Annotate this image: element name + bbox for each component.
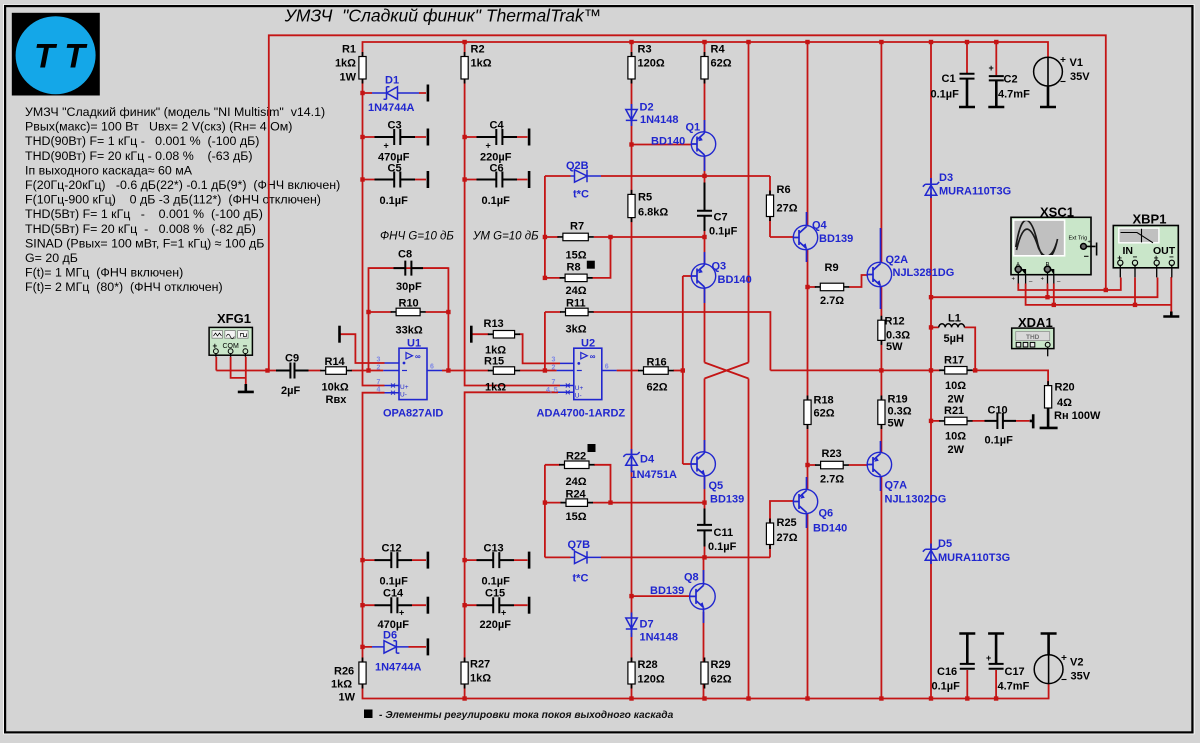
ground C2	[988, 81, 1004, 107]
ground D1 row	[427, 85, 430, 102]
svg-text:G= 20 дБ: G= 20 дБ	[25, 251, 78, 265]
diode D4 zener	[623, 452, 639, 465]
svg-text:F(t)= 2 МГц (80*) (ФНЧ отклю: F(t)= 2 МГц (80*) (ФНЧ отключен)	[25, 280, 223, 294]
capacitor C12	[375, 552, 413, 568]
wire D6 row stubs	[363, 646, 427, 648]
wire Q4 collector rail drop	[807, 42, 809, 227]
CAPACITORS	[276, 73, 1016, 669]
wire R13 to U2 pin3	[520, 334, 560, 363]
svg-text:1W: 1W	[339, 692, 356, 704]
OP-AMP U2	[546, 348, 617, 399]
wire scope line B from output column	[931, 278, 1158, 298]
svg-text:+: +	[384, 141, 389, 151]
svg-text:0.1µF: 0.1µF	[931, 89, 960, 101]
diode Q2B thermal	[571, 170, 602, 182]
svg-text:5µH: 5µH	[944, 333, 964, 345]
svg-text:XDA1: XDA1	[1018, 315, 1053, 330]
ground V2	[1041, 634, 1057, 655]
svg-text:0.1µF: 0.1µF	[709, 226, 738, 238]
wire C1 bottom	[966, 93, 968, 99]
svg-text:Q2A: Q2A	[886, 254, 909, 266]
svg-text:Iп выходного каскада≈ 60 мА: Iп выходного каскада≈ 60 мА	[25, 163, 193, 177]
wire R16 input from U2 out	[617, 370, 639, 372]
svg-text:D1: D1	[385, 75, 399, 87]
svg-text:R19: R19	[888, 394, 908, 406]
junctions x704 column Q1 C7 Q3 C11 Q8	[702, 174, 706, 178]
resistor R11	[566, 308, 589, 316]
svg-text:SINAD (Рвых= 100 мВт, F=1 кГц): SINAD (Рвых= 100 мВт, F=1 кГц) ≈ 100 дБ	[25, 236, 264, 250]
svg-text:24Ω: 24Ω	[566, 285, 587, 297]
svg-text:R8: R8	[567, 262, 581, 274]
svg-text:R11: R11	[566, 298, 586, 310]
svg-text:C3: C3	[388, 120, 402, 132]
svg-text:XSC1: XSC1	[1040, 205, 1074, 220]
svg-text:R22: R22	[566, 451, 586, 463]
svg-text:+: +	[399, 608, 404, 618]
resistor R26	[359, 662, 366, 684]
wire x631 column R3 D2 R5 D4 D7 R28	[631, 79, 633, 699]
diode D7 vertical	[626, 618, 637, 633]
svg-text:C16: C16	[937, 666, 957, 678]
svg-text:U2: U2	[581, 338, 595, 350]
junctions instrument wiring	[1104, 288, 1108, 292]
svg-text:R5: R5	[638, 192, 652, 204]
ground XFG1	[238, 384, 254, 392]
svg-text:0.1µF: 0.1µF	[380, 576, 409, 588]
svg-text:BD139: BD139	[650, 585, 684, 597]
wire scope line A input	[1018, 278, 1121, 291]
svg-text:+: +	[1012, 277, 1016, 283]
svg-text:D5: D5	[938, 538, 952, 550]
transistor Q8 NPN	[690, 584, 716, 610]
resistor R28	[628, 662, 635, 684]
svg-text:2W: 2W	[948, 394, 965, 406]
svg-text:УМЗЧ "Сладкий финик" ThermalT: УМЗЧ "Сладкий финик" ThermalTrak™	[284, 6, 602, 26]
transistor Q6 PNP	[793, 489, 818, 514]
svg-text:BD139: BD139	[710, 494, 744, 506]
wire Q5 emitter to C11 top	[704, 477, 706, 509]
wire column R2 C4 C6 to U2 pin7	[465, 79, 560, 386]
svg-text:1N4148: 1N4148	[640, 114, 679, 126]
wire R22 R24 block to Q7B row	[544, 465, 546, 558]
svg-text:10Ω: 10Ω	[945, 431, 966, 443]
wire X right lower to bottom rail	[748, 379, 750, 699]
capacitor C6	[477, 172, 518, 188]
resistor R15	[493, 367, 514, 375]
svg-text:R29: R29	[711, 659, 731, 671]
svg-text:1kΩ: 1kΩ	[471, 58, 492, 70]
transistor Q7A PNP	[867, 452, 892, 477]
wire C3 row	[363, 136, 427, 138]
svg-text:1kΩ: 1kΩ	[331, 679, 352, 691]
svg-text:1N4744A: 1N4744A	[375, 662, 422, 674]
ground C5 row	[427, 171, 430, 188]
svg-text:R14: R14	[325, 356, 346, 368]
svg-text:U-: U-	[400, 392, 407, 399]
junctions bottom rail C16 C17	[965, 696, 969, 700]
ground C15 row	[528, 597, 531, 614]
diode D3 zener	[923, 182, 939, 195]
svg-text:t*C: t*C	[573, 189, 589, 201]
transistor Q2A NPN	[867, 262, 891, 287]
svg-text:C10: C10	[988, 405, 1008, 417]
svg-text:V1: V1	[1070, 57, 1083, 69]
wire R4 rail stub	[704, 42, 706, 57]
resistor R22	[565, 461, 590, 469]
resistor R10	[396, 308, 420, 316]
svg-text:R20: R20	[1055, 382, 1075, 394]
svg-text:33kΩ: 33kΩ	[396, 325, 423, 337]
svg-text:6.8kΩ: 6.8kΩ	[638, 207, 668, 219]
svg-text:MURA110T3G: MURA110T3G	[938, 552, 1010, 564]
svg-text:+: +	[1088, 240, 1091, 246]
svg-text:Q2B: Q2B	[566, 160, 589, 172]
svg-text:R2: R2	[471, 44, 485, 56]
svg-text:D3: D3	[939, 172, 953, 184]
svg-text:NJL3281DG: NJL3281DG	[893, 267, 955, 279]
svg-text:6: 6	[605, 364, 609, 371]
wire C2 rail stub	[995, 42, 997, 75]
junctions x631 bias column	[629, 142, 633, 146]
svg-text:15Ω: 15Ω	[566, 250, 587, 262]
wire Q3 base lead	[683, 275, 692, 277]
wire R25 top to Q6 base	[770, 501, 793, 523]
svg-text:R21: R21	[944, 405, 964, 417]
svg-text:R23: R23	[822, 448, 842, 460]
wire x881 column Q2A R12 R19 Q7A	[880, 287, 882, 699]
wire vertical Q3 base to Q5 base	[682, 276, 684, 464]
svg-text:∞: ∞	[590, 352, 596, 361]
svg-text:D4: D4	[640, 454, 655, 466]
OP-AMP U1	[377, 348, 443, 399]
wire D1 row stubs	[363, 92, 427, 94]
wire C17 stem	[995, 644, 997, 699]
resistor R8	[565, 274, 587, 282]
wire input bus: left column, upper rail, right drop	[269, 35, 1106, 370]
svg-text:XFG1: XFG1	[217, 311, 251, 326]
capacitor C13	[477, 552, 515, 568]
svg-text:35V: 35V	[1070, 71, 1090, 83]
capacitor plus signs	[384, 63, 994, 663]
svg-text:30pF: 30pF	[396, 281, 422, 293]
svg-text:0.1µF: 0.1µF	[932, 681, 961, 693]
svg-text:4: 4	[377, 387, 381, 394]
svg-text:THD(90Вт) F= 20 кГц - 0.08 %: THD(90Вт) F= 20 кГц - 0.08 % (-63 дБ)	[25, 149, 253, 163]
svg-text:L1: L1	[948, 313, 961, 325]
wire V2 top stem	[1048, 644, 1050, 650]
svg-text:U1: U1	[407, 338, 421, 350]
wire U2 pins45 to lower column	[465, 392, 558, 662]
wire XFG plus post to input row	[215, 357, 217, 371]
svg-text:+: +	[501, 608, 506, 618]
resistor lead stubs	[320, 52, 1048, 689]
wire U1 gnd to pin3	[341, 334, 385, 363]
svg-text:R16: R16	[647, 357, 667, 369]
svg-text:10Ω: 10Ω	[945, 380, 966, 392]
resistor R13	[493, 331, 514, 339]
wire rail drop x748 to crossover	[748, 42, 750, 363]
wire x807 column Q4 R18 R23 Q6	[807, 249, 809, 699]
svg-text:R24: R24	[566, 489, 587, 501]
diode Q7B thermal	[571, 551, 602, 563]
resistor R12	[878, 320, 885, 340]
resistor R17	[945, 367, 967, 375]
TRANSISTORS	[690, 132, 892, 610]
transistor Q4 NPN	[793, 225, 817, 249]
info text block	[25, 105, 340, 294]
wire R11 corner to U2 pin2 junction	[544, 312, 546, 371]
ground U1 pin3	[338, 326, 341, 343]
capacitor C7	[697, 183, 712, 232]
svg-text:35V: 35V	[1071, 671, 1091, 683]
svg-text:THD(90Вт) F= 1 кГц - 0.001 %: THD(90Вт) F= 1 кГц - 0.001 % (-100 дБ)	[25, 134, 259, 148]
svg-text:2W: 2W	[948, 444, 965, 456]
resistor R21	[945, 417, 967, 425]
wire instrument ground line	[1026, 277, 1172, 312]
svg-text:T T: T T	[34, 38, 88, 76]
svg-text:∞: ∞	[415, 352, 421, 361]
svg-text:Ext Trig: Ext Trig	[1069, 236, 1088, 242]
svg-text:NJL1302DG: NJL1302DG	[885, 494, 947, 506]
svg-text:C9: C9	[285, 353, 299, 365]
wire R13 ground lead	[472, 333, 489, 335]
junction R16 output node	[681, 368, 685, 372]
svg-text:120Ω: 120Ω	[638, 58, 665, 70]
svg-text:OPA827AID: OPA827AID	[383, 408, 443, 420]
ground C6 row	[528, 171, 531, 188]
wire C5 row	[363, 179, 427, 181]
svg-text:Rн 100W: Rн 100W	[1054, 410, 1101, 422]
junctions x807 column R9 R23 rail	[805, 285, 809, 289]
svg-text:_: _	[1056, 277, 1061, 283]
svg-text:0.3Ω: 0.3Ω	[886, 330, 910, 342]
svg-text:R10: R10	[399, 298, 419, 310]
svg-text:УМ G=10 дБ: УМ G=10 дБ	[472, 231, 539, 243]
resistor R14	[326, 367, 347, 375]
svg-text:BD140: BD140	[813, 523, 847, 535]
svg-text:Рвых(макс)= 100 Вт Uвх= 2 V(: Рвых(макс)= 100 Вт Uвх= 2 V(скз) (Rн= 4 …	[25, 120, 292, 134]
svg-text:Q4: Q4	[812, 220, 828, 232]
diode D2 vertical	[626, 110, 637, 121]
capacitor C10	[985, 413, 1017, 429]
wire R16 out junction	[673, 370, 683, 372]
wire x931 output column D3 D5	[930, 193, 932, 699]
svg-text:Q7A: Q7A	[885, 480, 908, 492]
svg-text:Q6: Q6	[819, 508, 834, 520]
wire Q7B row	[545, 556, 770, 558]
COMPONENT LABELS blue	[368, 75, 1011, 674]
ground D6 row	[427, 638, 430, 655]
diode D6 horizontal cathode-right	[372, 641, 409, 653]
wire column R1 C3 C5 to U1 pin7	[363, 79, 385, 386]
inductor L1	[939, 324, 965, 328]
wire lower +rail from R1 top to V1 top	[363, 42, 1049, 57]
ground C10	[1030, 414, 1034, 428]
svg-text:C14: C14	[383, 588, 404, 600]
svg-text:7: 7	[552, 379, 556, 386]
svg-text:1kΩ: 1kΩ	[470, 673, 491, 685]
svg-text:Rвх: Rвх	[326, 394, 348, 406]
svg-text:C13: C13	[484, 543, 504, 555]
svg-text:R27: R27	[470, 659, 490, 671]
svg-text:R6: R6	[777, 184, 791, 196]
svg-text:THD(5Вт) F= 1 кГц - 0.001: THD(5Вт) F= 1 кГц - 0.001 % (-100 дБ)	[25, 207, 263, 221]
DIODES (blue)	[372, 87, 939, 653]
svg-text:Q5: Q5	[709, 480, 724, 492]
COMPONENT LABELS black	[281, 44, 1101, 704]
svg-text:3: 3	[377, 357, 381, 364]
svg-text:62Ω: 62Ω	[647, 382, 668, 394]
svg-text:F(10Гц-900 кГц) 0 дБ -3 дБ(: F(10Гц-900 кГц) 0 дБ -3 дБ(112*) (ФНЧ от…	[25, 193, 321, 207]
wire R2 rail stub	[464, 42, 466, 57]
resistor R16	[644, 367, 669, 375]
wire R22 R24 loop	[545, 465, 705, 503]
svg-text:D7: D7	[640, 619, 654, 631]
wire C16 stem	[966, 644, 968, 699]
resistor R29	[701, 662, 708, 684]
wire R6 top to Q2B row corner	[769, 176, 771, 195]
svg-text:120Ω: 120Ω	[638, 674, 665, 686]
transistor wire stubs (blue terminals to red wires)	[704, 120, 881, 623]
svg-text:C1: C1	[942, 73, 956, 85]
junctions U2 inverting net	[543, 368, 547, 372]
junctions second filter column C4 C6	[462, 135, 466, 139]
wire input row	[216, 370, 383, 372]
ground C16	[959, 634, 975, 664]
resistor R6	[766, 195, 773, 217]
svg-text:C5: C5	[388, 163, 402, 175]
junctions U1 feedback	[366, 368, 370, 372]
wire C11 bottom to Q7B row	[704, 547, 706, 558]
svg-text:5W: 5W	[888, 418, 905, 430]
svg-text:R28: R28	[638, 659, 658, 671]
svg-text:0.1µF: 0.1µF	[985, 435, 1014, 447]
wire XFG COM jog	[231, 357, 246, 378]
svg-text:U+: U+	[400, 384, 409, 391]
svg-text:R25: R25	[777, 517, 797, 529]
svg-text:5W: 5W	[886, 341, 903, 353]
svg-text:R7: R7	[570, 221, 584, 233]
wire R11 row	[545, 312, 771, 370]
resistor R7	[563, 233, 588, 241]
svg-text:2µF: 2µF	[281, 385, 300, 397]
wire U1 pin4 to lower left column	[363, 393, 385, 662]
resistor R24	[566, 499, 588, 507]
transistor Q1 PNP	[691, 132, 715, 157]
bottom note square	[364, 710, 373, 719]
wire XFG minus post to ground	[245, 357, 247, 384]
capacitor C1	[960, 73, 975, 80]
wire output row	[770, 370, 1048, 385]
svg-text:+: +	[986, 653, 991, 663]
ground C17	[988, 634, 1004, 664]
wire R21 row	[931, 420, 1030, 422]
svg-text:4, 5: 4, 5	[546, 387, 558, 394]
capacitor C5	[375, 172, 416, 188]
wire Q1 base	[632, 144, 693, 146]
svg-text:3kΩ: 3kΩ	[566, 324, 587, 336]
ground V1	[1040, 86, 1056, 107]
svg-text:C17: C17	[1005, 666, 1025, 678]
svg-text:R12: R12	[885, 316, 905, 328]
junctions lower left column C12 C14 D6	[360, 558, 364, 562]
svg-text:R9: R9	[825, 262, 839, 274]
svg-text:3: 3	[552, 357, 556, 364]
svg-text:BD140: BD140	[718, 274, 752, 286]
junctions left filter column D1 C3 C5	[360, 91, 364, 95]
svg-text:7: 7	[377, 379, 381, 386]
ground R13	[470, 326, 473, 343]
resistor R23	[821, 461, 844, 469]
wire Q4 base	[770, 236, 794, 238]
resistor R3	[628, 57, 635, 80]
wire Q2B row	[545, 175, 770, 177]
ground XBP1	[1163, 312, 1179, 317]
svg-text:D6: D6	[383, 630, 397, 642]
svg-text:BD140: BD140	[651, 136, 685, 148]
wire C15 row	[465, 604, 528, 606]
capacitor C2 polarized	[989, 75, 1004, 81]
wire U2 minus net vertical upper segment	[544, 176, 546, 278]
capacitor C9	[276, 363, 309, 379]
svg-text:1W: 1W	[340, 72, 357, 84]
wire U1 feedback loop	[369, 268, 449, 370]
transistor Q5 NPN	[691, 452, 715, 477]
svg-text:27Ω: 27Ω	[777, 203, 798, 215]
wire R10 row	[369, 311, 449, 313]
wire X left lower to Q5 collector	[704, 379, 706, 453]
capacitor C17 polarized	[989, 664, 1004, 669]
INSTRUMENT XSC1	[1011, 217, 1097, 283]
wire R25 bottom lead	[769, 545, 771, 558]
svg-text:U-: U-	[575, 392, 582, 399]
wire C14 row	[363, 604, 427, 606]
svg-text:C15: C15	[485, 588, 505, 600]
INSTRUMENT LABELS	[217, 205, 1166, 331]
wire L1 row	[931, 327, 975, 370]
wire bottom rail	[363, 684, 1049, 699]
svg-text:220µF: 220µF	[480, 619, 512, 631]
svg-text:1kΩ: 1kΩ	[335, 58, 356, 70]
wire C1 rail stub	[966, 42, 968, 73]
wire C4 row	[465, 136, 528, 138]
capacitor C3 leads and plates	[375, 129, 416, 145]
resistor R25	[766, 523, 773, 545]
ground C14 row	[427, 597, 430, 614]
capacitor C4	[477, 129, 518, 145]
black square marks near R8 and R22	[587, 261, 595, 269]
capacitor C8	[394, 261, 424, 276]
wire R9 row	[808, 275, 868, 287]
svg-text:R4: R4	[711, 44, 726, 56]
svg-text:ADA4700-1ARDZ: ADA4700-1ARDZ	[537, 408, 626, 420]
junctions x881 column output row rail	[879, 368, 883, 372]
INSTRUMENT XFG1	[209, 327, 252, 356]
svg-text:t*C: t*C	[573, 573, 589, 585]
svg-text:U+: U+	[575, 385, 584, 392]
ground C1	[959, 80, 975, 108]
svg-text:Q1: Q1	[686, 122, 701, 134]
wire C12 row	[363, 559, 427, 561]
wire crossover diagonal a	[705, 363, 749, 379]
svg-text:R15: R15	[484, 356, 504, 368]
svg-text:0.1µF: 0.1µF	[482, 576, 511, 588]
wire R23 row	[808, 464, 868, 466]
svg-text:0.1µF: 0.1µF	[482, 195, 511, 207]
wire R27 bottom stub	[464, 684, 466, 699]
svg-text:4Ω: 4Ω	[1057, 397, 1072, 409]
svg-text:1N4751A: 1N4751A	[631, 469, 678, 481]
